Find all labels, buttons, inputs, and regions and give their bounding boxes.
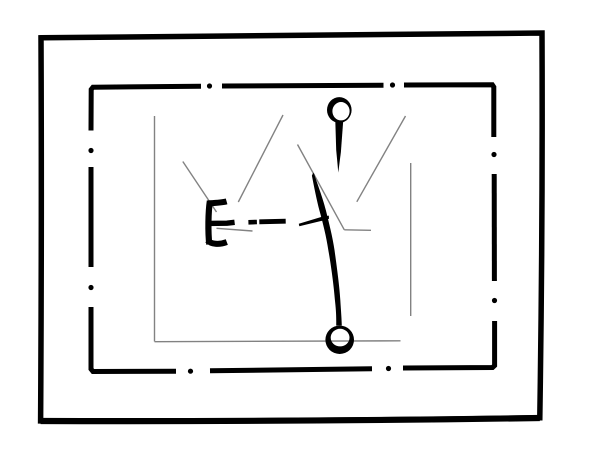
guide line: left V right arm (gray diagonal)	[238, 115, 283, 202]
outer enclosure border	[41, 33, 543, 421]
inner border: right edge dot 1	[491, 152, 496, 157]
guide line: right V right arm (gray diagonal)	[357, 116, 406, 202]
actuator bracket: middle arm	[209, 222, 235, 223]
guide line: left V left arm (gray diagonal)	[183, 162, 217, 213]
inner border: top-right corner dash	[404, 85, 494, 137]
inner border: bottom edge middle dash	[210, 369, 372, 371]
terminal T2 (bottom circle)	[325, 326, 354, 354]
guide line: short horizontal at right V bottom (gray)	[344, 229, 371, 232]
actuator bracket (E-shape): vertical bar	[208, 201, 209, 245]
inner dash-dot enclosure border: top-left corner dash	[91, 86, 201, 130]
guide line: short horizontal under actuator bracket (gray)	[217, 228, 253, 231]
guide line: bottom horizontal (gray)	[155, 340, 401, 343]
inner border: left edge middle dash	[89, 167, 94, 267]
terminal T1 (top circle)	[327, 97, 352, 123]
guide line: right V left arm (gray diagonal)	[298, 145, 345, 230]
inner border: bottom edge dot 1	[386, 366, 391, 371]
inner border: bottom-right corner dash	[403, 321, 495, 368]
mechanical link: tick at lever (tapered)	[299, 216, 329, 227]
mechanical link dash 1	[248, 220, 257, 225]
switch lever (bold curved moving contact)	[312, 173, 342, 326]
inner border: right edge dot 2	[492, 298, 497, 303]
inner border: bottom edge dot 2	[188, 369, 193, 374]
outer enclosure border: heavier bottom edge stroke	[41, 418, 540, 421]
mechanical link dash 2	[259, 219, 285, 224]
guide line: left vertical (gray)	[154, 116, 156, 342]
inner border: right edge middle dash	[492, 174, 497, 281]
terminal T1 lead (tapered stroke down from top circle)	[335, 121, 343, 173]
actuator bracket: bottom arm	[208, 240, 227, 244]
inner border: top edge dot 1	[207, 83, 212, 88]
actuator bracket: top arm	[208, 201, 227, 203]
inner border: left edge dot 1	[88, 285, 93, 290]
inner border: bottom-left corner dash	[91, 307, 176, 372]
inner border: top edge middle dash	[222, 83, 384, 89]
inner border: left edge dot 2	[88, 148, 93, 153]
inner border: top edge dot 2	[390, 82, 395, 87]
guide line: right vertical (gray)	[410, 163, 412, 316]
